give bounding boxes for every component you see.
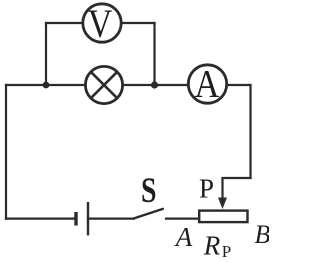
svg-text:P: P xyxy=(222,242,231,261)
switch S xyxy=(134,209,163,219)
rheostat RP xyxy=(199,211,247,223)
wire voltmeter branch vertical right xyxy=(153,23,155,85)
wire switch to rheostat terminal A xyxy=(166,218,199,220)
svg-text:B: B xyxy=(255,220,269,249)
svg-text:A: A xyxy=(174,222,193,252)
wire top of wiper xyxy=(223,177,251,179)
node J1 xyxy=(43,82,50,89)
wiper arrow P xyxy=(218,178,227,209)
node J2 xyxy=(151,81,158,88)
svg-text:P: P xyxy=(199,174,214,204)
ammeter A1 xyxy=(188,63,226,106)
wire ammeter to right corner xyxy=(227,84,251,86)
wire left vertical xyxy=(5,85,7,219)
wire voltmeter branch vertical left xyxy=(45,23,47,85)
wire bottom left to battery xyxy=(6,218,76,220)
lamp L1 xyxy=(85,66,122,103)
wire battery to switch xyxy=(88,218,134,220)
wire voltmeter branch top left xyxy=(46,22,83,24)
wire main horizontal to lamp xyxy=(6,84,85,86)
wire voltmeter branch top right xyxy=(122,22,155,24)
battery B1 xyxy=(76,202,88,235)
svg-text:A: A xyxy=(195,63,220,106)
svg-text:S: S xyxy=(141,170,157,210)
svg-text:R: R xyxy=(203,231,221,261)
wire lamp to ammeter xyxy=(123,84,189,86)
svg-text:V: V xyxy=(88,1,113,46)
wire right vertical xyxy=(249,85,251,178)
voltmeter U1 xyxy=(83,1,121,46)
